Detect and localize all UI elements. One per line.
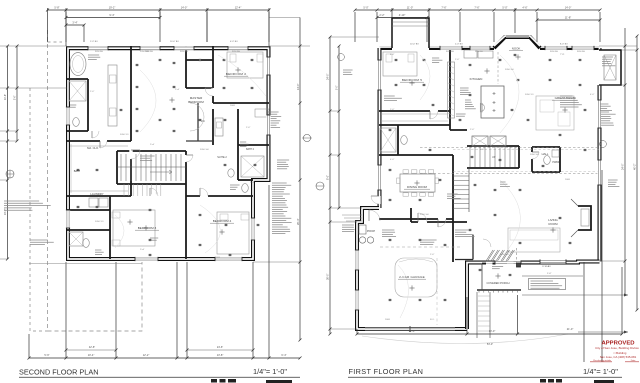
svg-text:City of San Jose, Building Div: City of San Jose, Building Divisio: [595, 346, 639, 350]
svg-text:San Jose, CA (408) 535-681: San Jose, CA (408) 535-681: [600, 355, 637, 359]
